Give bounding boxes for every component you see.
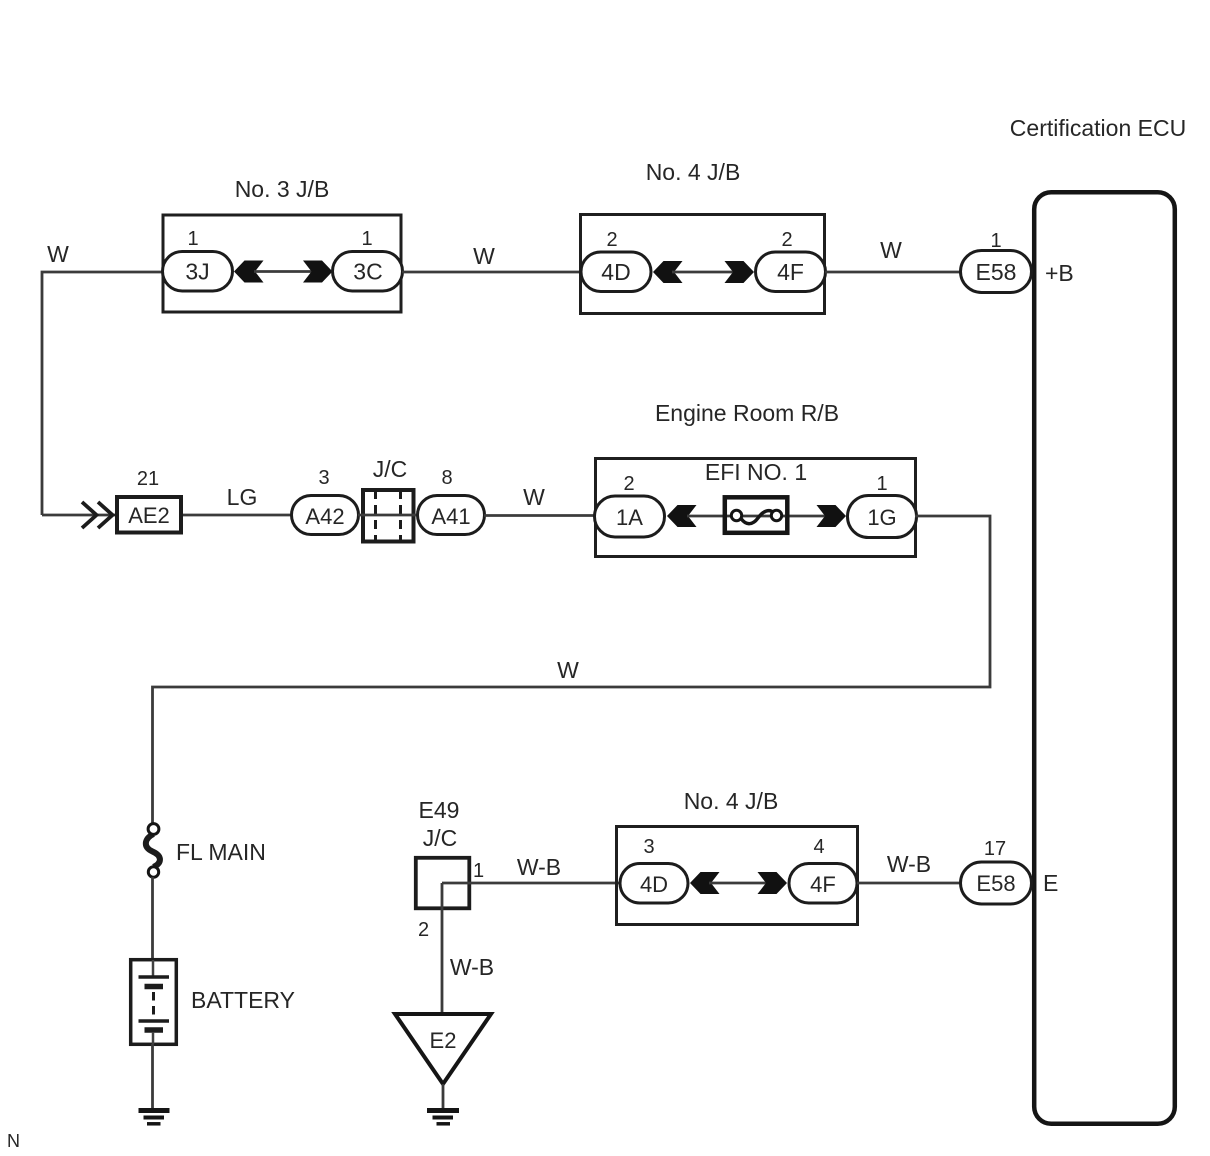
svg-text:1: 1 (361, 228, 372, 250)
label FL MAIN (176, 839, 266, 865)
svg-text:+B: +B (1045, 260, 1074, 286)
svg-text:J/C: J/C (423, 825, 458, 851)
svg-text:2: 2 (606, 229, 617, 251)
arrow at 1A (points left) (667, 505, 697, 527)
svg-text:W: W (47, 241, 69, 267)
svg-text:2: 2 (781, 229, 792, 251)
svg-text:3: 3 (318, 467, 329, 489)
wire inside Engine Room R/B through fuse (687, 515, 827, 518)
svg-text:E58: E58 (976, 871, 1015, 896)
wire label W (between 4F and E58) (880, 237, 902, 263)
connector 3C (333, 252, 403, 292)
svg-text:2: 2 (418, 919, 429, 941)
svg-text:A41: A41 (431, 504, 470, 529)
connector 4D (top) pin 2 label (606, 229, 617, 251)
junction connector J/C label (373, 456, 408, 482)
connector A42 pin 3 label (318, 467, 329, 489)
connector E58 (+B side) (961, 251, 1032, 293)
wire W: from node at (42,515) up and right to No.3 J/B connector 3J (42, 272, 163, 515)
svg-text:1A: 1A (616, 505, 643, 530)
wire through J/C: A42 to A41 (358, 514, 418, 517)
fusible link FL MAIN (146, 824, 160, 878)
svg-text:W: W (557, 657, 579, 683)
svg-text:21: 21 (137, 468, 159, 490)
wire label W-B (4F to E58) (887, 851, 931, 877)
connector E58 (E side) (961, 862, 1032, 904)
fuse name label: EFI NO. 1 (705, 459, 807, 485)
svg-text:4D: 4D (640, 872, 668, 897)
connector 3J pin 1 label (187, 228, 198, 250)
wire: node (42,515) to AE2 (42, 514, 116, 517)
wire: E2 to ground (442, 1084, 445, 1108)
connector 1A (595, 496, 665, 537)
wire label W-B (vertical) (450, 954, 494, 980)
connector 1G pin 1 label (876, 473, 887, 495)
svg-text:3: 3 (643, 836, 654, 858)
ground (E2) (427, 1111, 459, 1124)
wire W-B: 4F to E58 (857, 882, 961, 885)
svg-text:LG: LG (227, 484, 258, 510)
connector 3J (163, 252, 233, 292)
svg-text:E2: E2 (430, 1028, 457, 1053)
wire label W (top left) (47, 241, 69, 267)
svg-text:1G: 1G (867, 505, 896, 530)
wire label W (between A41 and 1A) (523, 484, 545, 510)
connector A42 (292, 496, 359, 535)
arrow at 4D top (points left) (653, 261, 683, 283)
connector 4D (bottom) (620, 864, 688, 904)
svg-text:J/C: J/C (373, 456, 408, 482)
svg-text:No. 3 J/B: No. 3 J/B (235, 176, 330, 202)
svg-text:2: 2 (623, 473, 634, 495)
junction connector J/C label (E49) (423, 825, 458, 851)
svg-text:No. 4 J/B: No. 4 J/B (684, 788, 779, 814)
svg-text:Certification ECU: Certification ECU (1010, 115, 1186, 141)
pin E of ECU (1043, 870, 1058, 896)
wire W: 1G down and across to FL MAIN branch (153, 516, 991, 825)
svg-text:Engine Room R/B: Engine Room R/B (655, 400, 839, 426)
wire W: 4F to E58 (825, 271, 961, 274)
junction block: No. 4 J/B (top) (581, 159, 825, 314)
connector A41 (418, 496, 485, 535)
pin 1 label of E49 (473, 860, 484, 882)
connector A41 pin 8 label (441, 467, 452, 489)
connector 1G (848, 496, 917, 538)
wire W-B: E49 J/C down to E2 (441, 883, 444, 1014)
svg-text:A42: A42 (305, 504, 344, 529)
ground point E2 (395, 1014, 491, 1084)
arrow at 1G (points right) (817, 505, 847, 527)
junction connector J/C between A42 and A41 (363, 490, 414, 542)
svg-text:FL MAIN: FL MAIN (176, 839, 266, 865)
svg-text:3C: 3C (353, 259, 382, 285)
connector 4D (top) (581, 252, 651, 292)
connector 3C pin 1 label (361, 228, 372, 250)
svg-text:W: W (880, 237, 902, 263)
connector 4F (bottom) pin 4 label (813, 836, 824, 858)
svg-text:4: 4 (813, 836, 824, 858)
svg-text:1: 1 (187, 228, 198, 250)
connector 4F (top) pin 2 label (781, 229, 792, 251)
label BATTERY (191, 987, 295, 1013)
arrow at 4D bottom (points left) (690, 872, 720, 894)
wire: FL MAIN to BATTERY (151, 877, 154, 959)
svg-text:1: 1 (473, 860, 484, 882)
wire: BATTERY to ground (151, 1044, 154, 1108)
connector AE2 pin 21 label (137, 468, 159, 490)
connector 4F (top) (756, 252, 826, 292)
svg-text:1: 1 (990, 230, 1001, 252)
connector E58 pin 1 label (990, 230, 1001, 252)
connector E58 pin 17 label (984, 838, 1006, 860)
wire inside No.3 J/B between arrows (254, 270, 314, 273)
svg-text:1: 1 (876, 473, 887, 495)
connector 4F (bottom) (789, 864, 857, 904)
svg-text:AE2: AE2 (128, 503, 170, 528)
wire LG: AE2 to A42 (183, 514, 292, 517)
connector AE2 (117, 497, 181, 533)
arrow at 4F bottom (points right) (758, 872, 788, 894)
arrow at 3C (points right) (303, 261, 333, 283)
svg-text:W: W (523, 484, 545, 510)
wire label W (long run) (557, 657, 579, 683)
wire label LG (227, 484, 258, 510)
arrow at 4F top (points right) (725, 261, 755, 283)
fuse EFI NO. 1 (725, 497, 788, 533)
svg-text:W-B: W-B (887, 851, 931, 877)
svg-text:W: W (473, 243, 495, 269)
junction block: No. 4 J/B (bottom) (617, 788, 858, 925)
junction connector E49 J/C (416, 858, 470, 909)
arrow at 3J (points left) (234, 261, 264, 283)
wire inside No.4 J/B bottom between arrows (709, 882, 768, 885)
junction block: No. 3 J/B (163, 176, 401, 312)
node N marker (7, 1131, 20, 1151)
relay block: Engine Room R/B (596, 400, 916, 557)
svg-text:N: N (7, 1131, 20, 1151)
svg-text:BATTERY: BATTERY (191, 987, 295, 1013)
inline connector arrows (double chevron) into AE2 (82, 502, 113, 528)
svg-text:4F: 4F (777, 259, 804, 285)
svg-text:17: 17 (984, 838, 1006, 860)
svg-text:4F: 4F (810, 872, 836, 897)
wire W-B: E49 J/C to 4D (bottom) (442, 882, 620, 885)
wire W: A41 to 1A (484, 514, 596, 517)
svg-text:W-B: W-B (450, 954, 494, 980)
ground (battery) (139, 1111, 170, 1124)
svg-text:3J: 3J (185, 259, 209, 285)
svg-text:8: 8 (441, 467, 452, 489)
svg-text:E58: E58 (976, 259, 1017, 285)
svg-text:W-B: W-B (517, 854, 561, 880)
connector 1A pin 2 label (623, 473, 634, 495)
ECU title label: Certification ECU (1010, 115, 1186, 141)
wire W: 3C to 4D (402, 271, 581, 274)
svg-text:EFI NO. 1: EFI NO. 1 (705, 459, 807, 485)
svg-text:E49: E49 (419, 797, 460, 823)
junction connector E49 label (419, 797, 460, 823)
wire label W-B (E49 to 4D) (517, 854, 561, 880)
svg-text:E: E (1043, 870, 1058, 896)
ECU U1: Certification ECU body (1034, 192, 1175, 1124)
wire inside No.4 J/B top between arrows (672, 271, 736, 274)
battery BATTERY (131, 960, 177, 1045)
svg-text:4D: 4D (601, 259, 630, 285)
pin 2 label of E49 (418, 919, 429, 941)
connector 4D (bottom) pin 3 label (643, 836, 654, 858)
pin +B of ECU (1045, 260, 1074, 286)
wire label W (between 3C and 4D) (473, 243, 495, 269)
svg-text:No. 4 J/B: No. 4 J/B (646, 159, 741, 185)
